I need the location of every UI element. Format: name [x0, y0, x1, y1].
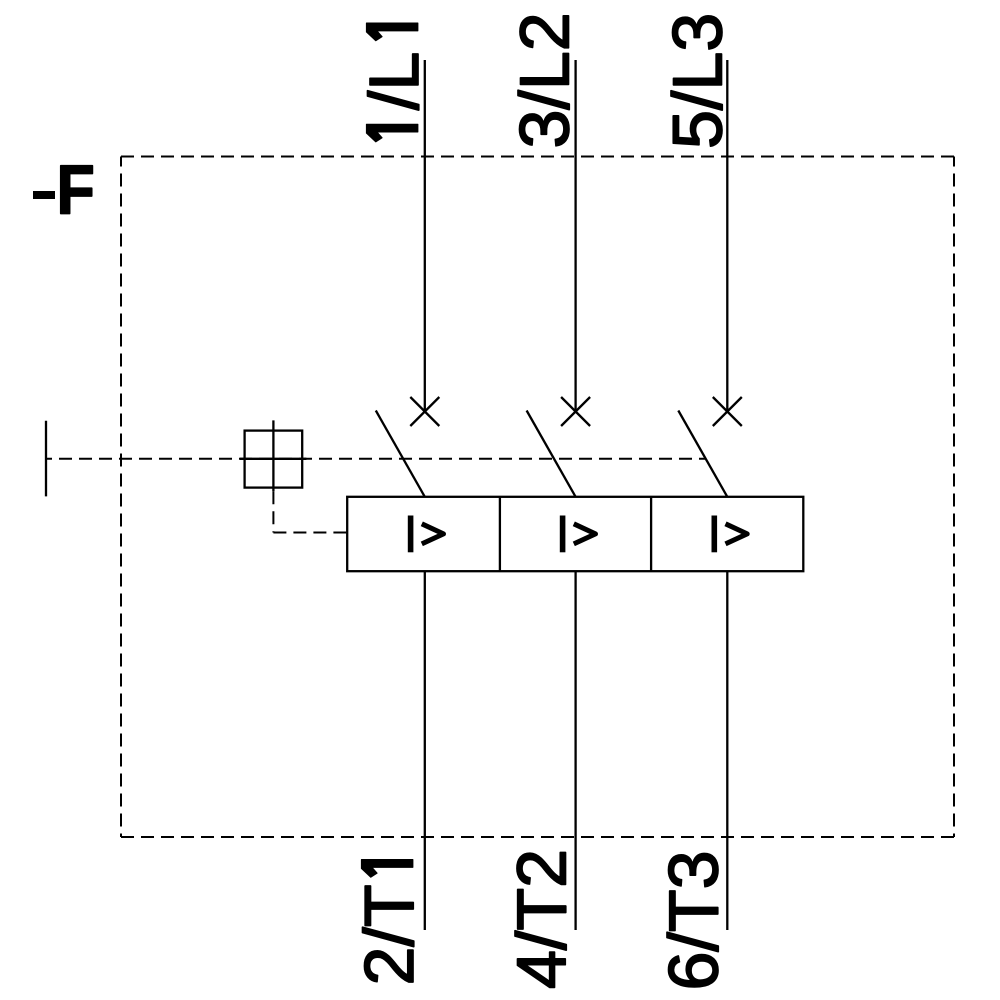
pole 2 contact blade	[527, 411, 576, 497]
svg-text:6/T3: 6/T3	[654, 850, 732, 990]
linkage to trip bar vertical dashed	[272, 491, 274, 532]
svg-text:/L: /L	[355, 52, 433, 110]
thermal overload trip unit box	[347, 497, 803, 571]
enclosure dashed border bottom	[121, 836, 954, 838]
operator square	[245, 431, 303, 488]
enclosure dashed border top	[121, 156, 954, 158]
label -F	[33, 191, 55, 199]
svg-text:2/T: 2/T	[350, 884, 428, 985]
manual operator end tick	[45, 421, 47, 497]
I> symbol cell 2	[560, 516, 566, 553]
pole 3 breaker cross	[713, 397, 742, 426]
pole 3 bottom wire	[726, 571, 728, 930]
pole 2 bottom wire	[574, 571, 576, 930]
enclosure dashed border right	[953, 157, 955, 838]
I> symbol cell 1	[408, 516, 414, 553]
mechanical linkage dashed line	[46, 458, 706, 460]
operator cross horizontal	[240, 458, 307, 460]
linkage to trip bar horizontal dashed	[273, 532, 347, 534]
svg-text:3/L2: 3/L2	[506, 12, 584, 148]
I> symbol cell 3	[711, 516, 717, 553]
pole 1 terminal label 2/T1	[350, 860, 428, 986]
trip unit divider 1	[499, 497, 501, 571]
pole 3 contact blade	[678, 411, 727, 497]
pole 3 top wire	[726, 60, 728, 412]
pole 1 breaker cross	[410, 397, 439, 426]
trip unit divider 2	[650, 497, 652, 571]
svg-text:4/T2: 4/T2	[503, 849, 581, 989]
pole 1 terminal label 1/L1	[355, 23, 433, 142]
svg-text:5/L3: 5/L3	[658, 13, 736, 149]
pole 1 top wire	[424, 60, 426, 412]
pole 2 top wire	[574, 60, 576, 412]
operator cross vertical	[272, 420, 274, 491]
enclosure dashed border left	[120, 157, 122, 838]
pole 1 bottom wire	[424, 571, 426, 930]
pole 1 contact blade	[376, 411, 425, 497]
pole 2 breaker cross	[561, 397, 590, 426]
svg-text:F: F	[57, 151, 95, 229]
